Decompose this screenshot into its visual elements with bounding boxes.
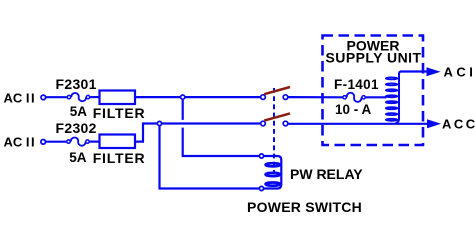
svg-text:ACC: ACC [442,117,476,132]
fuse F2302 [67,138,89,146]
svg-text:SUPPLY UNIT: SUPPLY UNIT [326,49,422,65]
wire fuse to filter 2 [90,141,99,143]
svg-text:10 - A: 10 - A [335,102,372,117]
svg-text:POWER SWITCH: POWER SWITCH [247,199,362,215]
switch S2 blade [264,113,290,120]
svg-text:FILTER: FILTER [93,105,146,121]
wire fuse to filter 1 [90,96,99,98]
relay coil PW RELAY [259,154,281,191]
svg-text:ACI: ACI [444,64,476,79]
wire S1 to PSU fuse [288,96,343,98]
svg-text:PW RELAY: PW RELAY [290,166,363,182]
wire filter 2 step up to line2 bus [135,124,260,142]
wire fuse F-1401 to transformer [366,96,387,98]
fuse F2301 [67,93,89,101]
svg-text:ACII: ACII [4,134,35,149]
svg-text:F2302: F2302 [56,120,97,136]
filter box 2 [100,135,136,149]
node junction line1 [181,95,185,99]
switch S1 blade [264,87,290,94]
switch S1 contacts [261,87,290,99]
filter box 1 [100,91,136,105]
wire junction1 down to relay top [182,100,184,120]
svg-text:F-1401: F-1401 [334,77,379,92]
svg-text:F2301: F2301 [56,76,97,92]
wire filter 1 to switch S1 [135,96,260,98]
terminal node line 2 [41,140,46,145]
arrow head ACC [427,119,441,128]
svg-text:ACII: ACII [4,90,35,105]
wire transformer top to ACI arrow [400,70,428,72]
wire junction2 down to relay bottom [160,126,259,188]
transformer coil T1401 [386,72,401,124]
arrow head ACI [427,67,441,76]
wire terminal to fuse F2301 [46,96,67,98]
svg-text:5A: 5A [70,104,88,119]
power supply unit dashed box [323,36,424,146]
node junction line2 [157,121,161,125]
wire S2 to ACC output [288,123,427,125]
svg-text:5A: 5A [69,150,87,165]
switch linkage dashed line [273,88,275,172]
terminal node line 1 [41,95,46,100]
svg-text:FILTER: FILTER [93,150,146,166]
switch S2 contacts [261,113,290,125]
wire terminal to fuse F2302 [46,141,67,143]
fuse F-1401 [343,93,365,102]
